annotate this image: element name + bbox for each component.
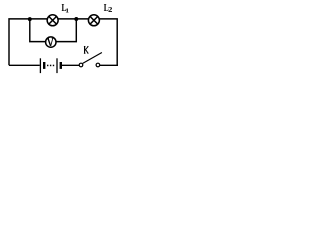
- svg-text:2: 2: [108, 6, 112, 14]
- svg-text:1: 1: [65, 7, 69, 14]
